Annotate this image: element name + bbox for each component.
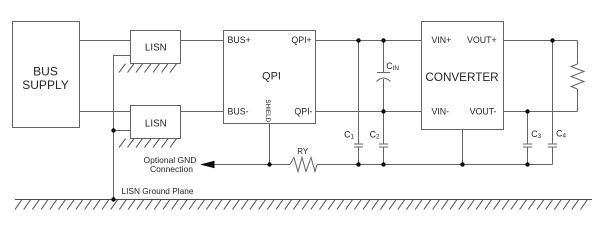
ground symbol hatching under LISN L1 bbox=[119, 64, 177, 73]
capacitor C3 top wire bbox=[527, 112, 529, 145]
svg-text:QPI: QPI bbox=[262, 71, 281, 83]
LISN ground plane hatching bbox=[15, 200, 588, 210]
ground rail left segment (arrow to RY) bbox=[214, 164, 290, 166]
converter box bbox=[422, 22, 504, 130]
svg-text:VIN-: VIN- bbox=[432, 107, 450, 117]
wire converter baseplate to ground rail bbox=[462, 130, 464, 165]
svg-text:C2: C2 bbox=[370, 129, 380, 140]
wire VOUT- rail bbox=[504, 111, 578, 113]
svg-text:LISN: LISN bbox=[145, 42, 167, 53]
LISN ground plane line bbox=[15, 199, 592, 201]
svg-text:VOUT-: VOUT- bbox=[470, 107, 497, 117]
svg-text:LISN: LISN bbox=[145, 118, 167, 129]
wire BUS+ from bus supply to LISN1 bbox=[80, 40, 131, 42]
junction node C3 on VOUT- rail bbox=[525, 109, 529, 113]
capacitor C3 bottom wire bbox=[527, 147, 529, 165]
capacitor C3 plates bbox=[523, 143, 532, 145]
wire QPI- rail to converter VIN- bbox=[316, 111, 422, 113]
capacitor CIN top plate bbox=[377, 72, 390, 74]
capacitor C4 top wire bbox=[552, 41, 554, 145]
load resistor top wire bbox=[577, 41, 579, 65]
load resistor bottom wire bbox=[577, 89, 579, 112]
svg-text:QPI+: QPI+ bbox=[291, 35, 311, 45]
wire SHIELD from QPI to ground rail bbox=[269, 124, 271, 165]
optional GND connection arrow bbox=[200, 161, 215, 169]
wire LISN2 ground terminal bbox=[114, 130, 131, 132]
capacitor C2 plates bbox=[379, 143, 388, 145]
capacitor C2 top wire bbox=[383, 112, 385, 145]
op-amp U1 QPI filter box bbox=[224, 31, 316, 124]
wire BUS- from bus supply to LISN2 bbox=[80, 111, 131, 113]
ground symbol hatching under LISN L2 bbox=[119, 139, 177, 148]
capacitor C1 bottom wire bbox=[358, 147, 360, 165]
svg-text:CONVERTER: CONVERTER bbox=[425, 71, 498, 84]
svg-text:RY: RY bbox=[297, 147, 309, 156]
junction node C3 bottom bbox=[525, 162, 529, 166]
junction node converter baseplate bbox=[460, 162, 464, 166]
junction node C2 bottom bbox=[381, 162, 385, 166]
junction node C4 top bbox=[550, 38, 554, 42]
svg-text:BUS: BUS bbox=[33, 65, 58, 79]
junction node CIN/C2 on QPI- rail bbox=[381, 109, 385, 113]
junction node ground plane tap bbox=[111, 197, 115, 201]
junction node LISN2 ground tap bbox=[111, 128, 115, 132]
bus supply box bbox=[13, 22, 80, 128]
junction node C1 top bbox=[356, 38, 360, 42]
svg-text:SUPPLY: SUPPLY bbox=[22, 78, 68, 92]
capacitor C1 top wire bbox=[358, 41, 360, 145]
svg-text:CIN: CIN bbox=[386, 61, 399, 72]
wire LISN1 ground terminal bbox=[114, 56, 131, 200]
capacitor C4 bottom wire bbox=[552, 147, 554, 165]
svg-text:BUS-: BUS- bbox=[228, 107, 249, 117]
svg-text:VIN+: VIN+ bbox=[432, 35, 452, 45]
ground rail right segment (RY to C4) bbox=[317, 164, 553, 166]
svg-text:LISN Ground Plane: LISN Ground Plane bbox=[122, 186, 194, 196]
wire LISN1 to QPI BUS+ bbox=[181, 40, 224, 42]
capacitor CIN top wire bbox=[383, 41, 385, 73]
svg-text:BUS+: BUS+ bbox=[228, 35, 251, 45]
junction node shield on ground rail bbox=[267, 162, 271, 166]
junction node CIN top bbox=[381, 38, 385, 42]
svg-text:VOUT+: VOUT+ bbox=[467, 35, 497, 45]
capacitor CIN curved bottom plate bbox=[377, 78, 391, 82]
label Optional GND Connection bbox=[144, 155, 197, 174]
wire QPI+ rail to converter VIN+ bbox=[316, 40, 422, 42]
svg-text:Connection: Connection bbox=[150, 164, 193, 174]
LISN L1 box bbox=[131, 31, 181, 64]
svg-text:QPI-: QPI- bbox=[294, 107, 312, 117]
label BUS SUPPLY bbox=[22, 65, 68, 93]
capacitor C2 bottom wire bbox=[383, 147, 385, 165]
capacitor CIN bottom wire bbox=[383, 79, 385, 112]
junction node C1 bottom bbox=[356, 162, 360, 166]
svg-text:SHIELD: SHIELD bbox=[264, 99, 271, 122]
resistor RY zigzag bbox=[290, 158, 317, 172]
capacitor C1 plates bbox=[354, 143, 363, 145]
LISN L2 box bbox=[131, 106, 181, 139]
capacitor C4 plates bbox=[548, 143, 557, 145]
wire VOUT+ rail bbox=[504, 40, 578, 42]
svg-text:C4: C4 bbox=[556, 129, 566, 140]
wire LISN2 to QPI BUS- bbox=[181, 111, 224, 113]
svg-text:C1: C1 bbox=[344, 129, 354, 140]
load resistor zigzag bbox=[571, 64, 584, 89]
svg-text:C3: C3 bbox=[531, 129, 541, 140]
